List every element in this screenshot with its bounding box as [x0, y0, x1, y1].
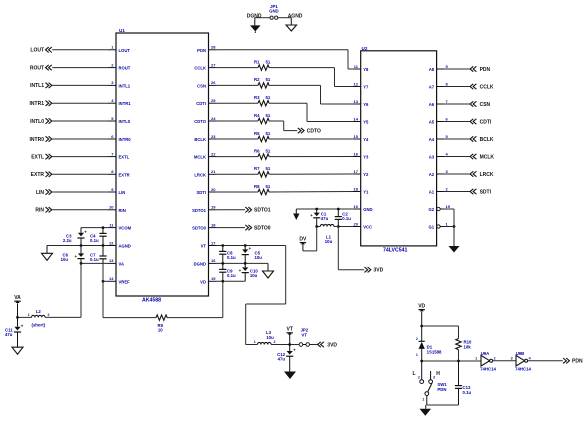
svg-text:VREF: VREF	[119, 279, 131, 284]
svg-text:+: +	[74, 254, 77, 259]
wire VREF to R9 rail	[103, 263, 156, 317]
resistor R3 51ohm	[254, 95, 271, 106]
svg-text:BCLK: BCLK	[480, 137, 494, 143]
port CDTO	[298, 128, 321, 134]
port 3VD (at JP2)	[318, 342, 338, 349]
svg-text:27: 27	[211, 62, 216, 67]
svg-text:A5: A5	[429, 120, 435, 125]
svg-text:15: 15	[211, 276, 216, 281]
svg-text:VA: VA	[14, 295, 21, 301]
ground arrow at U2 GND	[293, 209, 299, 220]
svg-text:0.1u: 0.1u	[90, 257, 99, 262]
svg-text:INTL0: INTL0	[30, 119, 44, 125]
svg-text:VT: VT	[302, 332, 308, 337]
jumper JP2 VT	[299, 327, 309, 346]
svg-text:22: 22	[211, 151, 216, 156]
svg-text:Y1: Y1	[363, 190, 369, 195]
capacitor C9 0.1u	[219, 263, 236, 281]
svg-text:3: 3	[111, 80, 114, 85]
svg-text:+: +	[293, 348, 296, 353]
capacitor C2 0.1u	[335, 209, 352, 227]
svg-text:GND: GND	[363, 207, 372, 212]
svg-text:2: 2	[274, 340, 276, 344]
svg-text:14: 14	[109, 276, 114, 281]
wire L2 to VA pin	[45, 263, 81, 317]
svg-text:15: 15	[354, 134, 359, 139]
svg-text:LRCK: LRCK	[480, 172, 494, 178]
resistor R1 51ohm	[254, 59, 271, 70]
svg-text:A4: A4	[429, 137, 435, 142]
wire VT feed to L3	[246, 246, 286, 345]
svg-text:10: 10	[158, 328, 163, 333]
svg-text:MCLK: MCLK	[480, 154, 495, 160]
wire CSN net through R2 to U2 Y6	[217, 85, 353, 104]
svg-text:AGND: AGND	[119, 244, 131, 249]
svg-text:10u: 10u	[61, 257, 69, 262]
svg-text:U9B: U9B	[516, 351, 525, 356]
svg-text:SDTO0: SDTO0	[192, 226, 207, 231]
svg-text:1: 1	[422, 398, 424, 402]
svg-text:CCLK: CCLK	[194, 66, 206, 71]
svg-text:3: 3	[446, 169, 449, 174]
svg-text:PDN: PDN	[572, 359, 583, 365]
resistor R7 51ohm	[254, 166, 271, 177]
wire SDTI to port	[445, 191, 470, 193]
wire U2 GND rail	[296, 208, 352, 211]
svg-text:VA: VA	[119, 261, 125, 266]
svg-text:INTR1: INTR1	[119, 101, 132, 106]
capacitor C7 0.1u	[90, 246, 107, 264]
svg-text:74HC14: 74HC14	[480, 367, 496, 372]
svg-text:+: +	[310, 213, 313, 218]
capacitor C11 47u	[5, 317, 24, 347]
svg-text:PDN: PDN	[480, 67, 491, 73]
port ROUT (left)	[30, 65, 108, 72]
IC U2 74LVC541 buffer	[352, 46, 451, 254]
wire VD node to R10	[422, 326, 459, 339]
svg-text:47u: 47u	[278, 357, 286, 362]
ground DGND (filled)	[250, 18, 260, 33]
svg-text:EXTR: EXTR	[119, 172, 130, 177]
svg-text:R4: R4	[254, 113, 260, 118]
svg-text:ROUT: ROUT	[30, 65, 44, 71]
svg-text:6: 6	[111, 134, 114, 139]
power flag VT	[287, 327, 293, 345]
wire CCLK net through R1 to U2 Y7	[217, 68, 353, 87]
svg-text:VT: VT	[287, 327, 293, 333]
svg-text:H: H	[436, 371, 440, 377]
resistor R4 51ohm	[254, 113, 271, 124]
resistor R10 10k	[456, 339, 472, 350]
port INTR1 (left)	[30, 101, 108, 108]
svg-text:A7: A7	[429, 85, 435, 90]
wire JP2 to 3VD port	[310, 344, 318, 346]
svg-text:10: 10	[109, 205, 114, 210]
svg-text:17: 17	[354, 169, 359, 174]
svg-text:16: 16	[211, 258, 216, 263]
svg-text:47u: 47u	[5, 332, 13, 337]
svg-text:4: 4	[529, 356, 531, 360]
svg-text:4: 4	[111, 98, 114, 103]
svg-text:7: 7	[446, 99, 449, 104]
svg-text:2: 2	[111, 62, 114, 67]
svg-text:74LVC541: 74LVC541	[383, 248, 408, 254]
svg-text:A8: A8	[429, 67, 435, 72]
port CSN (right)	[470, 101, 490, 108]
label AGND	[288, 13, 303, 19]
wire CDTI net through R3 to U2 Y5	[217, 103, 353, 121]
svg-text:CDTI: CDTI	[480, 119, 492, 125]
svg-text:AGND: AGND	[288, 13, 303, 19]
svg-text:Y2: Y2	[363, 172, 369, 177]
port INTL0 (left)	[30, 118, 108, 125]
port 3VD (at U2)	[365, 267, 384, 274]
svg-text:51: 51	[266, 95, 271, 100]
svg-text:CCLK: CCLK	[480, 84, 494, 90]
port CDTI (right)	[470, 119, 492, 126]
wire LRCK to port	[445, 173, 470, 175]
svg-text:INTR0: INTR0	[30, 137, 45, 143]
svg-text:8: 8	[446, 81, 449, 86]
capacitor C10 10u	[239, 263, 259, 281]
wire R9 to VD rail	[167, 281, 223, 317]
svg-text:2: 2	[494, 356, 496, 360]
svg-text:1: 1	[254, 340, 256, 344]
svg-text:18: 18	[211, 222, 216, 227]
port INTL1 (left)	[30, 83, 108, 90]
svg-text:12: 12	[354, 81, 359, 86]
port EXTL (left)	[31, 154, 108, 161]
port RIN (left)	[35, 207, 108, 214]
label DGND	[247, 13, 262, 19]
svg-text:LRCK: LRCK	[194, 172, 206, 177]
svg-text:VCOM: VCOM	[119, 226, 132, 231]
ground at DGND pin	[263, 263, 274, 278]
capacitor C1 47u	[310, 209, 328, 227]
svg-text:9: 9	[111, 187, 114, 192]
wire SDTO0 net	[217, 227, 246, 229]
port PDN (output)	[563, 358, 583, 365]
switch SW1 PDN	[413, 361, 448, 405]
port SDTI (right)	[470, 189, 492, 196]
svg-text:+: +	[21, 323, 24, 328]
svg-text:PDN: PDN	[437, 387, 446, 392]
svg-text:LOUT: LOUT	[30, 48, 44, 54]
wire VA node to L2	[18, 316, 32, 318]
svg-text:0.1u: 0.1u	[227, 255, 236, 260]
ground at AGND pin	[42, 246, 53, 261]
svg-text:CDTO: CDTO	[194, 119, 207, 124]
wire AGND rail	[47, 244, 108, 247]
wire DV to VCC rail	[303, 227, 317, 251]
wire MCLK net through R6 to U2 Y3	[217, 156, 353, 158]
svg-text:23: 23	[211, 134, 216, 139]
svg-text:10u: 10u	[325, 239, 333, 244]
wire CDTO net to port	[217, 121, 298, 131]
capacitor C13 0.1u	[455, 361, 472, 405]
wire VD rail	[217, 280, 246, 283]
svg-text:28: 28	[211, 45, 216, 50]
wire VT rail	[217, 244, 286, 247]
svg-text:RIN: RIN	[119, 208, 126, 213]
svg-text:9: 9	[446, 64, 449, 69]
svg-text:(short): (short)	[31, 323, 45, 328]
inverter U9B 74HC14	[511, 351, 532, 372]
resistor R2 51ohm	[254, 77, 271, 88]
svg-text:0.1u: 0.1u	[227, 273, 236, 278]
svg-text:R3: R3	[254, 95, 260, 100]
svg-text:R1: R1	[254, 59, 260, 64]
svg-text:3: 3	[433, 376, 435, 380]
svg-text:A6: A6	[429, 102, 435, 107]
svg-text:SDTI: SDTI	[480, 189, 492, 195]
svg-text:MCLK: MCLK	[194, 155, 206, 160]
inductor L1 10u	[320, 224, 334, 244]
port LOUT (left)	[30, 47, 108, 54]
svg-text:2: 2	[418, 376, 420, 380]
svg-text:51: 51	[266, 131, 271, 136]
inductor L2 (short)	[28, 309, 50, 328]
inductor L3 10u	[254, 330, 276, 345]
wire CSN to port	[445, 103, 470, 105]
wire VA rail	[80, 262, 108, 265]
svg-text:A1: A1	[429, 190, 435, 195]
capacitor C4 0.1u	[90, 228, 107, 246]
resistor R5 51ohm	[254, 131, 271, 142]
wire SDTI net through R8 to U2 Y1	[217, 191, 353, 194]
svg-text:51: 51	[266, 113, 271, 118]
svg-text:2: 2	[416, 337, 418, 341]
svg-text:1: 1	[416, 353, 418, 357]
svg-text:Y4: Y4	[363, 137, 369, 142]
resistor R9 10	[156, 315, 167, 333]
capacitor C3 2.2u	[63, 228, 87, 246]
svg-text:Y5: Y5	[363, 120, 369, 125]
svg-text:Y6: Y6	[363, 102, 369, 107]
wire PDN logic rail	[420, 360, 481, 363]
jumper JP1 GND	[269, 4, 279, 19]
svg-text:4: 4	[446, 151, 449, 156]
wire U2 G2 G1 to ground	[445, 209, 456, 246]
svg-text:13: 13	[109, 258, 114, 263]
svg-text:74HC14: 74HC14	[515, 367, 531, 372]
svg-text:18: 18	[354, 186, 359, 191]
svg-text:EXTL: EXTL	[31, 154, 44, 160]
svg-text:CDTO: CDTO	[307, 128, 321, 134]
wire CDTI to port	[445, 121, 470, 123]
svg-text:INTR1: INTR1	[30, 101, 45, 107]
port CCLK (right)	[470, 84, 494, 91]
svg-text:2.2u: 2.2u	[63, 238, 72, 243]
svg-text:51: 51	[266, 166, 271, 171]
svg-text:20: 20	[211, 187, 216, 192]
svg-text:EXTR: EXTR	[31, 172, 45, 178]
wire VCC to 3VD port	[338, 227, 364, 270]
svg-text:1: 1	[28, 313, 30, 317]
capacitor C5 10u	[242, 246, 263, 264]
capacitor C8 0.1u	[219, 246, 236, 264]
svg-text:7: 7	[111, 151, 114, 156]
svg-text:VT: VT	[201, 244, 207, 249]
svg-text:DV: DV	[299, 236, 307, 242]
svg-text:51: 51	[266, 59, 271, 64]
wire CCLK to port	[445, 86, 470, 88]
svg-text:Y3: Y3	[363, 155, 369, 160]
resistor R6 51ohm	[254, 148, 271, 159]
svg-text:LOUT: LOUT	[119, 48, 131, 53]
wire L3 to VT node	[271, 343, 299, 346]
wire LRCK net through R7 to U2 Y2	[217, 173, 353, 175]
svg-text:L2: L2	[36, 309, 42, 314]
svg-text:CDTI: CDTI	[196, 101, 206, 106]
svg-text:R8: R8	[254, 184, 260, 189]
wire VCOM rail	[81, 226, 108, 229]
svg-text:8: 8	[111, 169, 114, 174]
svg-text:20: 20	[354, 221, 359, 226]
svg-text:R2: R2	[254, 77, 260, 82]
wire DGND to JP1	[255, 17, 270, 19]
inverter U9A 74HC14	[475, 351, 496, 372]
port LIN (left)	[36, 189, 108, 196]
svg-text:R6: R6	[254, 148, 260, 153]
svg-text:SDTI: SDTI	[196, 190, 206, 195]
svg-text:0.1u: 0.1u	[90, 238, 99, 243]
wire DGND rail	[217, 262, 269, 265]
svg-text:26: 26	[211, 80, 216, 85]
svg-text:RIN: RIN	[35, 208, 44, 214]
svg-text:U1: U1	[119, 28, 125, 33]
svg-text:VCC: VCC	[363, 225, 372, 230]
svg-text:0.1u: 0.1u	[463, 390, 472, 395]
svg-text:INTL1: INTL1	[119, 83, 131, 88]
svg-text:51: 51	[266, 148, 271, 153]
svg-text:LIN: LIN	[36, 190, 44, 196]
port MCLK (right)	[470, 154, 494, 161]
svg-text:1: 1	[475, 356, 477, 360]
svg-text:2: 2	[48, 313, 50, 317]
port EXTR (left)	[31, 172, 108, 179]
svg-text:11: 11	[354, 64, 359, 69]
svg-text:BCLK: BCLK	[194, 137, 206, 142]
svg-text:A3: A3	[429, 155, 435, 160]
svg-text:PDN: PDN	[197, 48, 206, 53]
svg-text:51: 51	[266, 77, 271, 82]
capacitor C6 10u	[61, 246, 85, 264]
svg-text:3: 3	[511, 356, 513, 360]
power flag DV	[299, 236, 307, 251]
svg-text:10u: 10u	[250, 273, 258, 278]
wire MCLK to port	[445, 156, 470, 158]
svg-text:12: 12	[109, 240, 114, 245]
wire switch ground rail	[427, 404, 459, 406]
port BCLK (right)	[470, 136, 494, 143]
svg-text:L: L	[413, 371, 416, 377]
svg-text:0.1u: 0.1u	[342, 216, 351, 221]
svg-text:+: +	[248, 246, 251, 251]
svg-text:INTR0: INTR0	[119, 137, 132, 142]
wire R10 to rail	[458, 350, 460, 361]
svg-text:14: 14	[354, 116, 359, 121]
svg-text:U9A: U9A	[481, 351, 490, 356]
svg-text:10u: 10u	[255, 255, 263, 260]
IC U1 AK4588 codec	[108, 28, 217, 303]
svg-text:5: 5	[446, 134, 449, 139]
svg-text:1: 1	[111, 45, 114, 50]
svg-text:25: 25	[211, 98, 216, 103]
svg-text:INTL1: INTL1	[30, 83, 44, 89]
svg-text:R7: R7	[254, 166, 260, 171]
svg-text:+: +	[239, 268, 242, 273]
svg-text:24: 24	[211, 116, 216, 121]
svg-text:11: 11	[109, 222, 114, 227]
ground AGND (open)	[286, 18, 297, 31]
power flag VA	[14, 295, 21, 317]
svg-text:AK4588: AK4588	[142, 298, 161, 304]
wire PDN to port	[445, 68, 470, 70]
svg-text:CSN: CSN	[480, 102, 491, 108]
svg-text:21: 21	[211, 169, 216, 174]
svg-text:5: 5	[111, 116, 114, 121]
svg-text:Y8: Y8	[363, 67, 369, 72]
svg-text:10k: 10k	[464, 344, 472, 349]
svg-text:+: +	[84, 229, 87, 234]
svg-text:6: 6	[446, 116, 449, 121]
wire BCLK net through R5 to U2 Y4	[217, 138, 353, 140]
svg-text:13: 13	[354, 99, 359, 104]
diode D1 1S1588	[416, 326, 442, 361]
wire U9B to PDN port	[528, 360, 563, 362]
svg-text:3VD: 3VD	[374, 268, 384, 274]
svg-text:GND: GND	[269, 9, 279, 14]
svg-text:17: 17	[211, 240, 216, 245]
svg-text:G1: G1	[429, 225, 435, 230]
svg-text:1S1588: 1S1588	[427, 349, 442, 354]
ground at SW1	[420, 405, 432, 416]
node VA supply	[16, 316, 19, 319]
svg-text:EXTL: EXTL	[119, 155, 130, 160]
resistor R8 51ohm	[254, 184, 271, 195]
svg-text:U2: U2	[362, 46, 368, 51]
svg-text:SDTO1: SDTO1	[192, 208, 207, 213]
svg-text:SDTO1: SDTO1	[254, 208, 271, 214]
port INTR0 (left)	[30, 136, 108, 143]
svg-text:47u: 47u	[321, 216, 329, 221]
svg-text:G2: G2	[429, 207, 435, 212]
svg-text:51: 51	[266, 184, 271, 189]
svg-text:19: 19	[446, 204, 451, 209]
wire U9A to U9B	[493, 360, 516, 362]
port SDTO1	[245, 207, 270, 214]
wire SDTO1 net	[217, 209, 246, 211]
svg-text:A2: A2	[429, 172, 435, 177]
svg-text:LIN: LIN	[119, 190, 126, 195]
svg-text:19: 19	[211, 205, 216, 210]
svg-text:CSN: CSN	[197, 83, 206, 88]
svg-text:2: 2	[446, 186, 449, 191]
capacitor C12 47u	[277, 345, 296, 372]
svg-text:3VD: 3VD	[327, 342, 337, 348]
svg-text:SDTO0: SDTO0	[254, 225, 271, 231]
svg-text:INTL0: INTL0	[119, 119, 131, 124]
wire U2 VCC rail	[315, 225, 352, 228]
ground at U2 G pins	[449, 246, 460, 253]
wire PDN net U1 pin28 to U2 Y8	[217, 50, 353, 69]
svg-text:Y7: Y7	[363, 85, 369, 90]
wire BCLK to port	[445, 138, 470, 140]
svg-text:1: 1	[446, 221, 449, 226]
svg-text:DGND: DGND	[194, 261, 206, 266]
port PDN (right)	[470, 66, 490, 73]
